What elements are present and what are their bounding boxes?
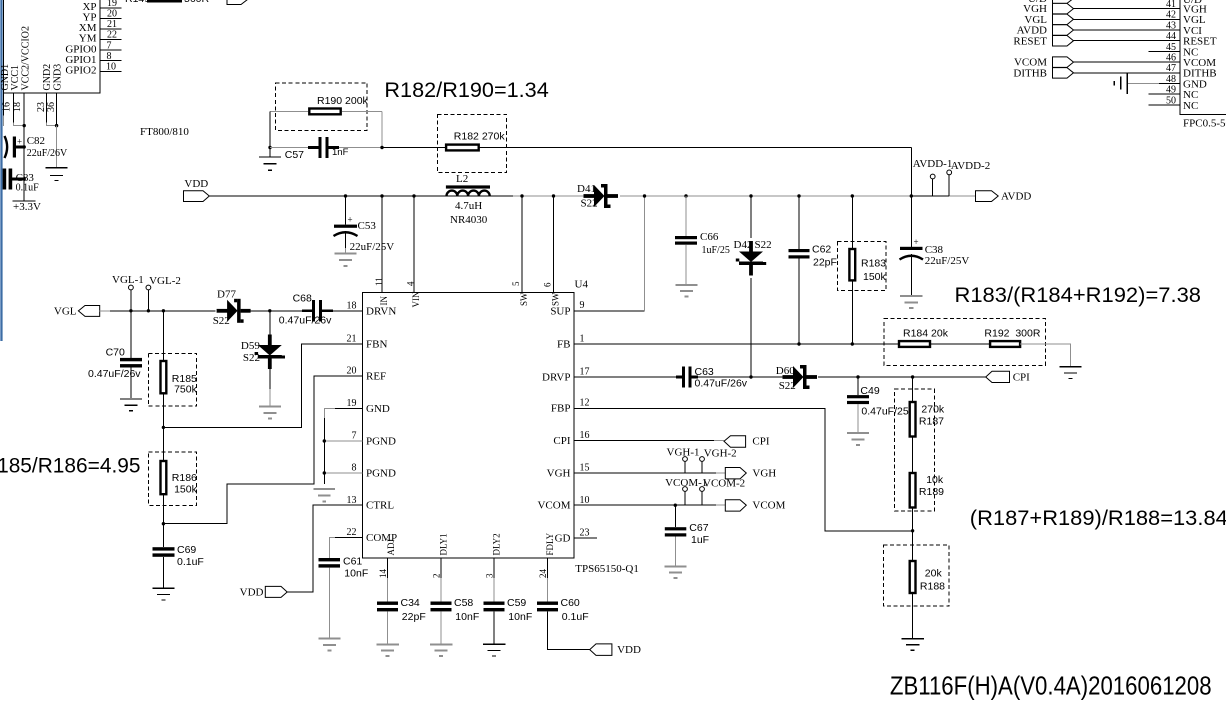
svg-text:VGH-1: VGH-1 [667,447,700,459]
svg-text:VGH: VGH [547,468,571,480]
junction R187 at DRVP/CPI [911,375,914,378]
svg-text:SW: SW [519,292,529,306]
svg-text:RESET: RESET [1013,35,1047,47]
svg-text:18: 18 [347,301,357,312]
wire GND down [56,126,58,167]
pin VCC2/VCCIO2 18 (bottom) [23,93,25,125]
svg-text:1nF: 1nF [332,147,349,158]
pin GD 23 (stub) [574,537,597,539]
svg-text:L2: L2 [456,173,468,185]
wire CPI pin to flag [574,440,714,442]
pin DLY2 3 (bottom) [493,558,495,578]
capacitor C82 22uF/26V [5,136,8,158]
junction GND node [55,124,58,127]
wire C63 to D60 [698,376,787,378]
pin XP 19 [100,7,122,9]
power flag AVDD [976,191,999,202]
svg-text:VDD: VDD [240,587,264,599]
dashed box R187/R189 [895,389,935,511]
wire D60 to CPI flag [818,376,986,378]
svg-text:22uF/26V: 22uF/26V [27,148,68,159]
wire FBP path [574,409,913,531]
junction VCC node [23,124,26,127]
pin FDLY 24 (bottom) [547,558,549,578]
svg-text:0.47uF/26v: 0.47uF/26v [279,315,332,327]
svg-text:R182/R190=1.34: R182/R190=1.34 [384,79,549,102]
dashed box R183 [837,242,886,291]
svg-text:17: 17 [580,367,590,378]
wire VGL [100,310,110,312]
net flag VGL (conn) [1053,14,1074,25]
pin YP 20 [100,17,122,19]
svg-text:C60: C60 [561,597,580,609]
wire R190 right [342,111,382,113]
pin 50 NC [1149,104,1180,106]
svg-text:C57: C57 [285,149,304,161]
svg-text:19: 19 [347,398,357,409]
svg-text:150k: 150k [863,271,887,283]
svg-text:C62: C62 [812,244,831,256]
svg-text:7: 7 [352,431,357,442]
svg-text:U4: U4 [575,279,589,291]
svg-text:GND: GND [366,403,390,415]
svg-text:22: 22 [347,527,357,538]
pin GPIO1 8 [100,60,122,62]
pin GPIO0 7 [100,49,122,51]
pin VCC1 16 (bottom) [13,93,15,122]
svg-text:C82: C82 [27,135,45,147]
net flag RESET (conn) [1053,36,1074,47]
svg-text:DRVN: DRVN [366,305,396,317]
junction IN-line crosses C57 wire [380,146,383,149]
op-amp U4 TPS65150-Q1 box [363,293,574,559]
wire FB to divider R184/R192 [574,343,899,345]
pin IN 11 (top) [381,196,383,293]
svg-text:REF: REF [366,371,386,383]
pin SUP 9 wire to rail [574,310,645,312]
power flag VDD (CTRL) [265,586,287,597]
ground (GND2/GND3) [46,168,68,181]
junction R183 at FB [851,342,854,345]
ground (C53) [335,253,357,266]
ground (pin 48, rotated) [1114,73,1127,94]
svg-text:C53: C53 [358,220,377,232]
junction C49 at DRVP [856,375,859,378]
svg-text:4.7uH: 4.7uH [455,200,482,212]
svg-text:R183: R183 [861,258,886,270]
pin 45 NC [1149,50,1180,52]
svg-text:CPI: CPI [1013,372,1030,384]
svg-text:10k: 10k [926,474,944,486]
IC FT800/810 box (partial, top-left) [4,0,101,93]
svg-text:VCOM: VCOM [752,500,785,512]
diode D77 S22 [217,309,228,313]
capacitor C49 0.47uF/25v [857,377,859,395]
inductor L2 4.7uH NR4030 [446,185,490,188]
wire D77 to C68 [248,310,303,312]
svg-text:44: 44 [1166,31,1176,42]
svg-text:8: 8 [352,463,357,474]
svg-text:C59: C59 [507,597,526,609]
svg-text:SW: SW [551,292,561,306]
svg-text:2: 2 [432,574,442,579]
capacitor C38 22uF/25V [910,196,912,247]
svg-text:ZB116F(H)A(V0.4A)2016061208: ZB116F(H)A(V0.4A)2016061208 [890,671,1212,701]
svg-text:D77: D77 [217,289,236,301]
dashed box R184/R192 [884,319,1046,366]
junction D59 node [268,309,271,312]
svg-text:PGND: PGND [366,468,396,480]
wire C57/R182 run to right node [382,147,911,149]
resistor R188 20k (vertical) [910,561,916,593]
svg-text:11: 11 [374,277,384,286]
junction C62 at FB [797,342,800,345]
svg-text:45: 45 [1166,42,1176,53]
svg-text:22pF: 22pF [813,257,837,269]
wire node drop to rail [910,148,912,197]
wire REF to R186 bottom [163,376,362,524]
blue window edge strip [0,0,3,341]
svg-text:C68: C68 [293,293,312,305]
ground (R188) [901,639,924,651]
svg-text:DLY1: DLY1 [439,533,449,555]
svg-text:16: 16 [2,102,13,112]
svg-text:C69: C69 [177,544,196,556]
svg-text:VGL-1: VGL-1 [112,274,144,286]
svg-text:R184 20k: R184 20k [903,328,949,340]
svg-text:50: 50 [1166,95,1176,106]
svg-text:NC: NC [1183,100,1198,112]
junction R186 bottom node [162,522,165,525]
svg-text:20: 20 [347,366,357,377]
svg-text:22: 22 [107,30,117,41]
capacitor C66 1uF/25 [684,194,687,197]
svg-text:GD: GD [555,533,571,545]
svg-text:21: 21 [107,19,117,30]
diode D42 S22 (vertical) [749,194,752,197]
junction SW5 at rail [520,194,523,197]
ground (C58) [430,644,453,656]
svg-text:VCC2/VCCIO2: VCC2/VCCIO2 [21,26,32,90]
svg-text:0.47uF/26v: 0.47uF/26v [88,368,141,380]
wire FBN to divider [163,344,362,428]
svg-text:GPIO2: GPIO2 [65,65,96,77]
svg-text:0.47uF/25v: 0.47uF/25v [861,406,914,418]
junction SW6 at rail [552,194,555,197]
svg-text:24: 24 [538,569,548,579]
pin GND1 (bottom, stub) [3,93,5,115]
wire VDD rail [209,195,513,197]
wire R190 left [270,111,308,113]
svg-text:D41: D41 [577,183,596,195]
svg-text:1uF: 1uF [691,534,709,546]
pin SW 5 (top) [521,196,523,293]
pin SW 6 (top) [553,196,555,293]
resistor R182 270k [446,145,479,151]
svg-text:10nF: 10nF [508,611,532,623]
test point AVDD-2 [948,175,950,196]
pin DLY1 2 (bottom) [440,558,442,578]
resistor R185 750k (vertical) [162,311,164,361]
svg-text:FB: FB [557,338,570,350]
ground (R190/C57) [269,148,271,157]
svg-text:AVDD-1: AVDD-1 [913,158,953,170]
ground (C61) [318,639,340,651]
test point AVDD-1 [932,179,934,196]
wire PGND 7 stub [324,440,362,442]
svg-text:+3.3V: +3.3V [13,201,41,213]
svg-text:750k: 750k [174,384,198,396]
svg-text:NR4030: NR4030 [450,214,488,226]
svg-text:0.1uF: 0.1uF [177,556,204,568]
svg-text:18: 18 [12,102,23,112]
wire COMP to C61 [335,537,363,539]
svg-text:10: 10 [580,495,590,506]
svg-text:VCC1: VCC1 [10,65,21,91]
svg-text:10: 10 [106,62,116,73]
svg-text:3: 3 [485,573,495,578]
svg-text:C61: C61 [343,556,362,568]
svg-text:D59: D59 [241,340,260,352]
svg-text:47: 47 [1166,63,1176,74]
svg-text:IN: IN [379,296,389,306]
svg-text:FDLY: FDLY [545,532,555,555]
junction VIN at rail [412,194,415,197]
net flag CPI (right) [986,371,1010,382]
svg-text:TPS65150-Q1: TPS65150-Q1 [575,563,639,575]
svg-text:DITHB: DITHB [1013,67,1047,79]
svg-text:S22: S22 [213,315,230,327]
svg-text:VCOM: VCOM [537,500,570,512]
svg-text:AVDD-2: AVDD-2 [951,160,991,172]
wire R190 right drop [381,112,383,148]
diode D59 S22 (vertical) [269,311,271,335]
svg-text:10nF: 10nF [344,568,368,580]
capacitor C58 10nF [431,602,452,605]
svg-text:FBP: FBP [551,403,571,415]
svg-text:S22: S22 [755,239,772,251]
svg-text:D60: D60 [776,365,795,377]
net flag VCOM (conn) [1053,57,1074,68]
diode D41 S22 [584,194,595,198]
svg-text:0.47uF/26v: 0.47uF/26v [695,378,748,390]
wire CTRL to VDD [287,505,363,592]
svg-text:(R187+R189)/R188=13.84: (R187+R189)/R188=13.84 [970,507,1226,530]
svg-text:VGH-2: VGH-2 [704,448,737,460]
wire VCC rail down to +3.3V [23,126,25,201]
svg-text:VGH: VGH [752,468,776,480]
capacitor C34 22pF [377,602,398,605]
resistor R183 150k (vertical) [851,194,854,197]
svg-text:R185/R186=4.95: R185/R186=4.95 [0,455,141,478]
net flag VGH (conn) [1053,3,1074,14]
svg-text:42: 42 [1166,10,1176,21]
capacitor C62 22pF [797,194,800,197]
wire R192 to ground [1020,344,1070,366]
power flag VDD (bottom, for C60) [590,644,612,656]
resistor R192 300R [990,341,1020,347]
junction R185/R186 node [162,426,165,429]
net flag CPI (pin16) [724,436,746,448]
svg-text:R192 300R: R192 300R [984,328,1040,340]
wire R189 down [912,508,914,562]
svg-text:13: 13 [347,495,357,506]
svg-text:FBN: FBN [366,338,387,350]
wire DRVP to C63 [574,376,676,378]
pin 41 VGH [1074,8,1181,10]
svg-text:49: 49 [1166,85,1176,96]
svg-text:150k: 150k [174,484,198,496]
svg-text:1uF/25: 1uF/25 [702,245,730,256]
pin 46 VCOM [1074,61,1181,63]
svg-text:DLY2: DLY2 [492,533,502,555]
pin YM 22 [100,39,122,41]
junction rail/R182 node [910,194,913,197]
ground (C34) [376,644,399,656]
svg-text:FT800/810: FT800/810 [140,126,189,138]
svg-text:270k: 270k [921,404,945,416]
svg-text:22uF/25V: 22uF/25V [925,255,970,267]
svg-text:R183/(R184+R192)=7.38: R183/(R184+R192)=7.38 [955,284,1202,307]
svg-text:ADJ: ADJ [386,539,396,556]
svg-text:VIN: VIN [411,291,421,307]
ground (GND/PGND) [314,489,335,502]
svg-text:22uF/25V: 22uF/25V [350,241,395,253]
svg-text:6: 6 [543,282,553,287]
junction D42 at DRVP [749,375,752,378]
svg-text:R149: R149 [125,0,150,5]
svg-text:+: + [914,237,919,247]
svg-text:48: 48 [1166,74,1176,85]
wire PGND 8 stub [324,472,362,474]
capacitor C67 1uF [674,505,676,527]
pin GND2 23 (bottom) [45,93,47,122]
svg-text:8: 8 [107,51,112,62]
ground (R192) [1060,367,1082,379]
svg-text:0.1uF: 0.1uF [562,611,589,623]
wire C57 left [270,147,308,149]
svg-text:+: + [348,215,353,225]
svg-text:36: 36 [46,102,57,112]
wire VGH pin to flag [574,472,716,474]
capacitor C83 0.1uF [3,169,7,190]
dashed box R185 [148,353,196,406]
svg-text:20k: 20k [925,568,943,580]
svg-text:+: + [17,137,22,147]
ground (C38) [900,296,923,308]
svg-text:CTRL: CTRL [366,500,394,512]
svg-text:21: 21 [347,334,357,345]
svg-text:R190 200k: R190 200k [317,95,369,107]
resistor R189 10k (vertical) [910,473,916,508]
capacitor C57 1nF [308,146,319,149]
svg-text:VDD: VDD [617,644,641,656]
capacitor C59 10nF [484,602,505,605]
net flag VGH [725,468,746,479]
ground (C49) [847,433,869,445]
pin XM 21 [100,28,122,30]
pin GND3 36 (bottom) [56,93,58,125]
dashed box R188 [883,545,949,606]
dashed box R182 [437,115,506,173]
svg-text:R188: R188 [920,581,945,593]
svg-text:22pF: 22pF [402,611,426,623]
pin 42 VGL [1074,18,1181,20]
wire R190 left drop to C57 node [269,112,271,148]
wire VCOM pin to flag [574,504,716,506]
wire R188 to ground [912,593,914,638]
capacitor C61 10nF [319,558,341,561]
svg-text:5: 5 [511,281,521,286]
dashed box R190 [276,83,368,131]
svg-text:R189: R189 [919,486,944,498]
svg-text:D42: D42 [734,239,753,251]
capacitor C60 0.1uF [537,602,558,605]
svg-text:23: 23 [580,528,590,539]
pin 48 GND [1159,83,1180,85]
dashed box R186 [148,452,196,506]
resistor R190 200k [309,109,340,115]
junction C57 left node [268,146,271,149]
ground (C66) [676,285,698,297]
junction IN line at rail [380,194,383,197]
capacitor C53 22uF/25V [344,194,347,197]
junction FBP at R188 [911,529,914,532]
pin ADJ 14 (bottom) [387,558,389,578]
svg-text:SUP: SUP [550,305,570,317]
svg-text:9: 9 [580,300,585,311]
svg-text:R186: R186 [172,472,197,484]
wire VCC1-VCC2 join [14,123,25,126]
svg-text:VCOM-2: VCOM-2 [703,478,745,490]
resistor R184 20k [899,341,930,347]
svg-text:R182 270k: R182 270k [454,131,506,143]
svg-text:DRVP: DRVP [542,372,570,384]
wire GND2-GND3 join [46,123,56,126]
ground (C70) [120,399,142,411]
junction R185 at VGL wire [162,309,165,312]
net flag DITHB (conn) [1053,68,1074,79]
svg-text:CPI: CPI [752,436,769,448]
pin DRVN 18 [333,310,363,312]
resistor R186 150k (vertical) [162,427,164,461]
svg-text:20: 20 [107,9,117,20]
svg-text:R187: R187 [919,416,944,428]
capacitor C69 0.1uF [162,524,164,548]
pin 47 DITHB [1074,72,1181,74]
ground (C59) [483,644,506,656]
svg-text:S22: S22 [581,198,598,210]
wire C57 to R182 [339,147,382,149]
capacitor C68 0.47uF/26v [302,309,312,312]
net flag AVDD (conn) [1053,25,1074,36]
svg-text:0.1uF: 0.1uF [16,183,39,194]
svg-text:10nF: 10nF [455,611,479,623]
svg-text:16: 16 [580,430,590,441]
connector FPC0.5-50 box [1180,0,1226,114]
svg-text:CPI: CPI [553,435,570,447]
ground (D59) [259,407,281,419]
net flag VCOM [725,500,746,511]
svg-text:VDD: VDD [184,178,208,190]
wire R184-R192 [930,343,990,345]
wire R187-R189 [912,437,914,474]
svg-text:FPC0.5-50: FPC0.5-50 [1183,118,1226,130]
pin 49 NC [1149,93,1180,95]
svg-text:12: 12 [580,398,590,409]
svg-text:C58: C58 [454,597,473,609]
svg-text:VGL-2: VGL-2 [149,275,181,287]
